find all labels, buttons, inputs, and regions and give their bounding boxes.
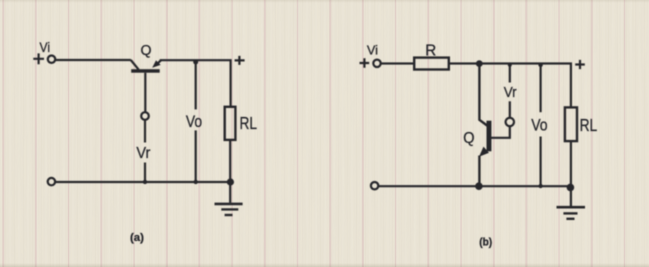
svg-text:R: R [425, 42, 436, 59]
svg-text:RL: RL [240, 113, 258, 133]
svg-text:Q: Q [141, 42, 152, 59]
svg-text:RL: RL [580, 115, 598, 135]
svg-text:Vr: Vr [136, 145, 151, 162]
svg-text:(a): (a) [130, 232, 144, 244]
svg-text:Vo: Vo [531, 117, 547, 135]
svg-text:Vr: Vr [504, 84, 517, 101]
svg-text:Q: Q [463, 130, 474, 147]
svg-text:Vi: Vi [367, 44, 378, 58]
svg-text:(b): (b) [479, 237, 492, 249]
svg-text:Vi: Vi [40, 39, 51, 55]
svg-text:Vo: Vo [186, 113, 202, 131]
